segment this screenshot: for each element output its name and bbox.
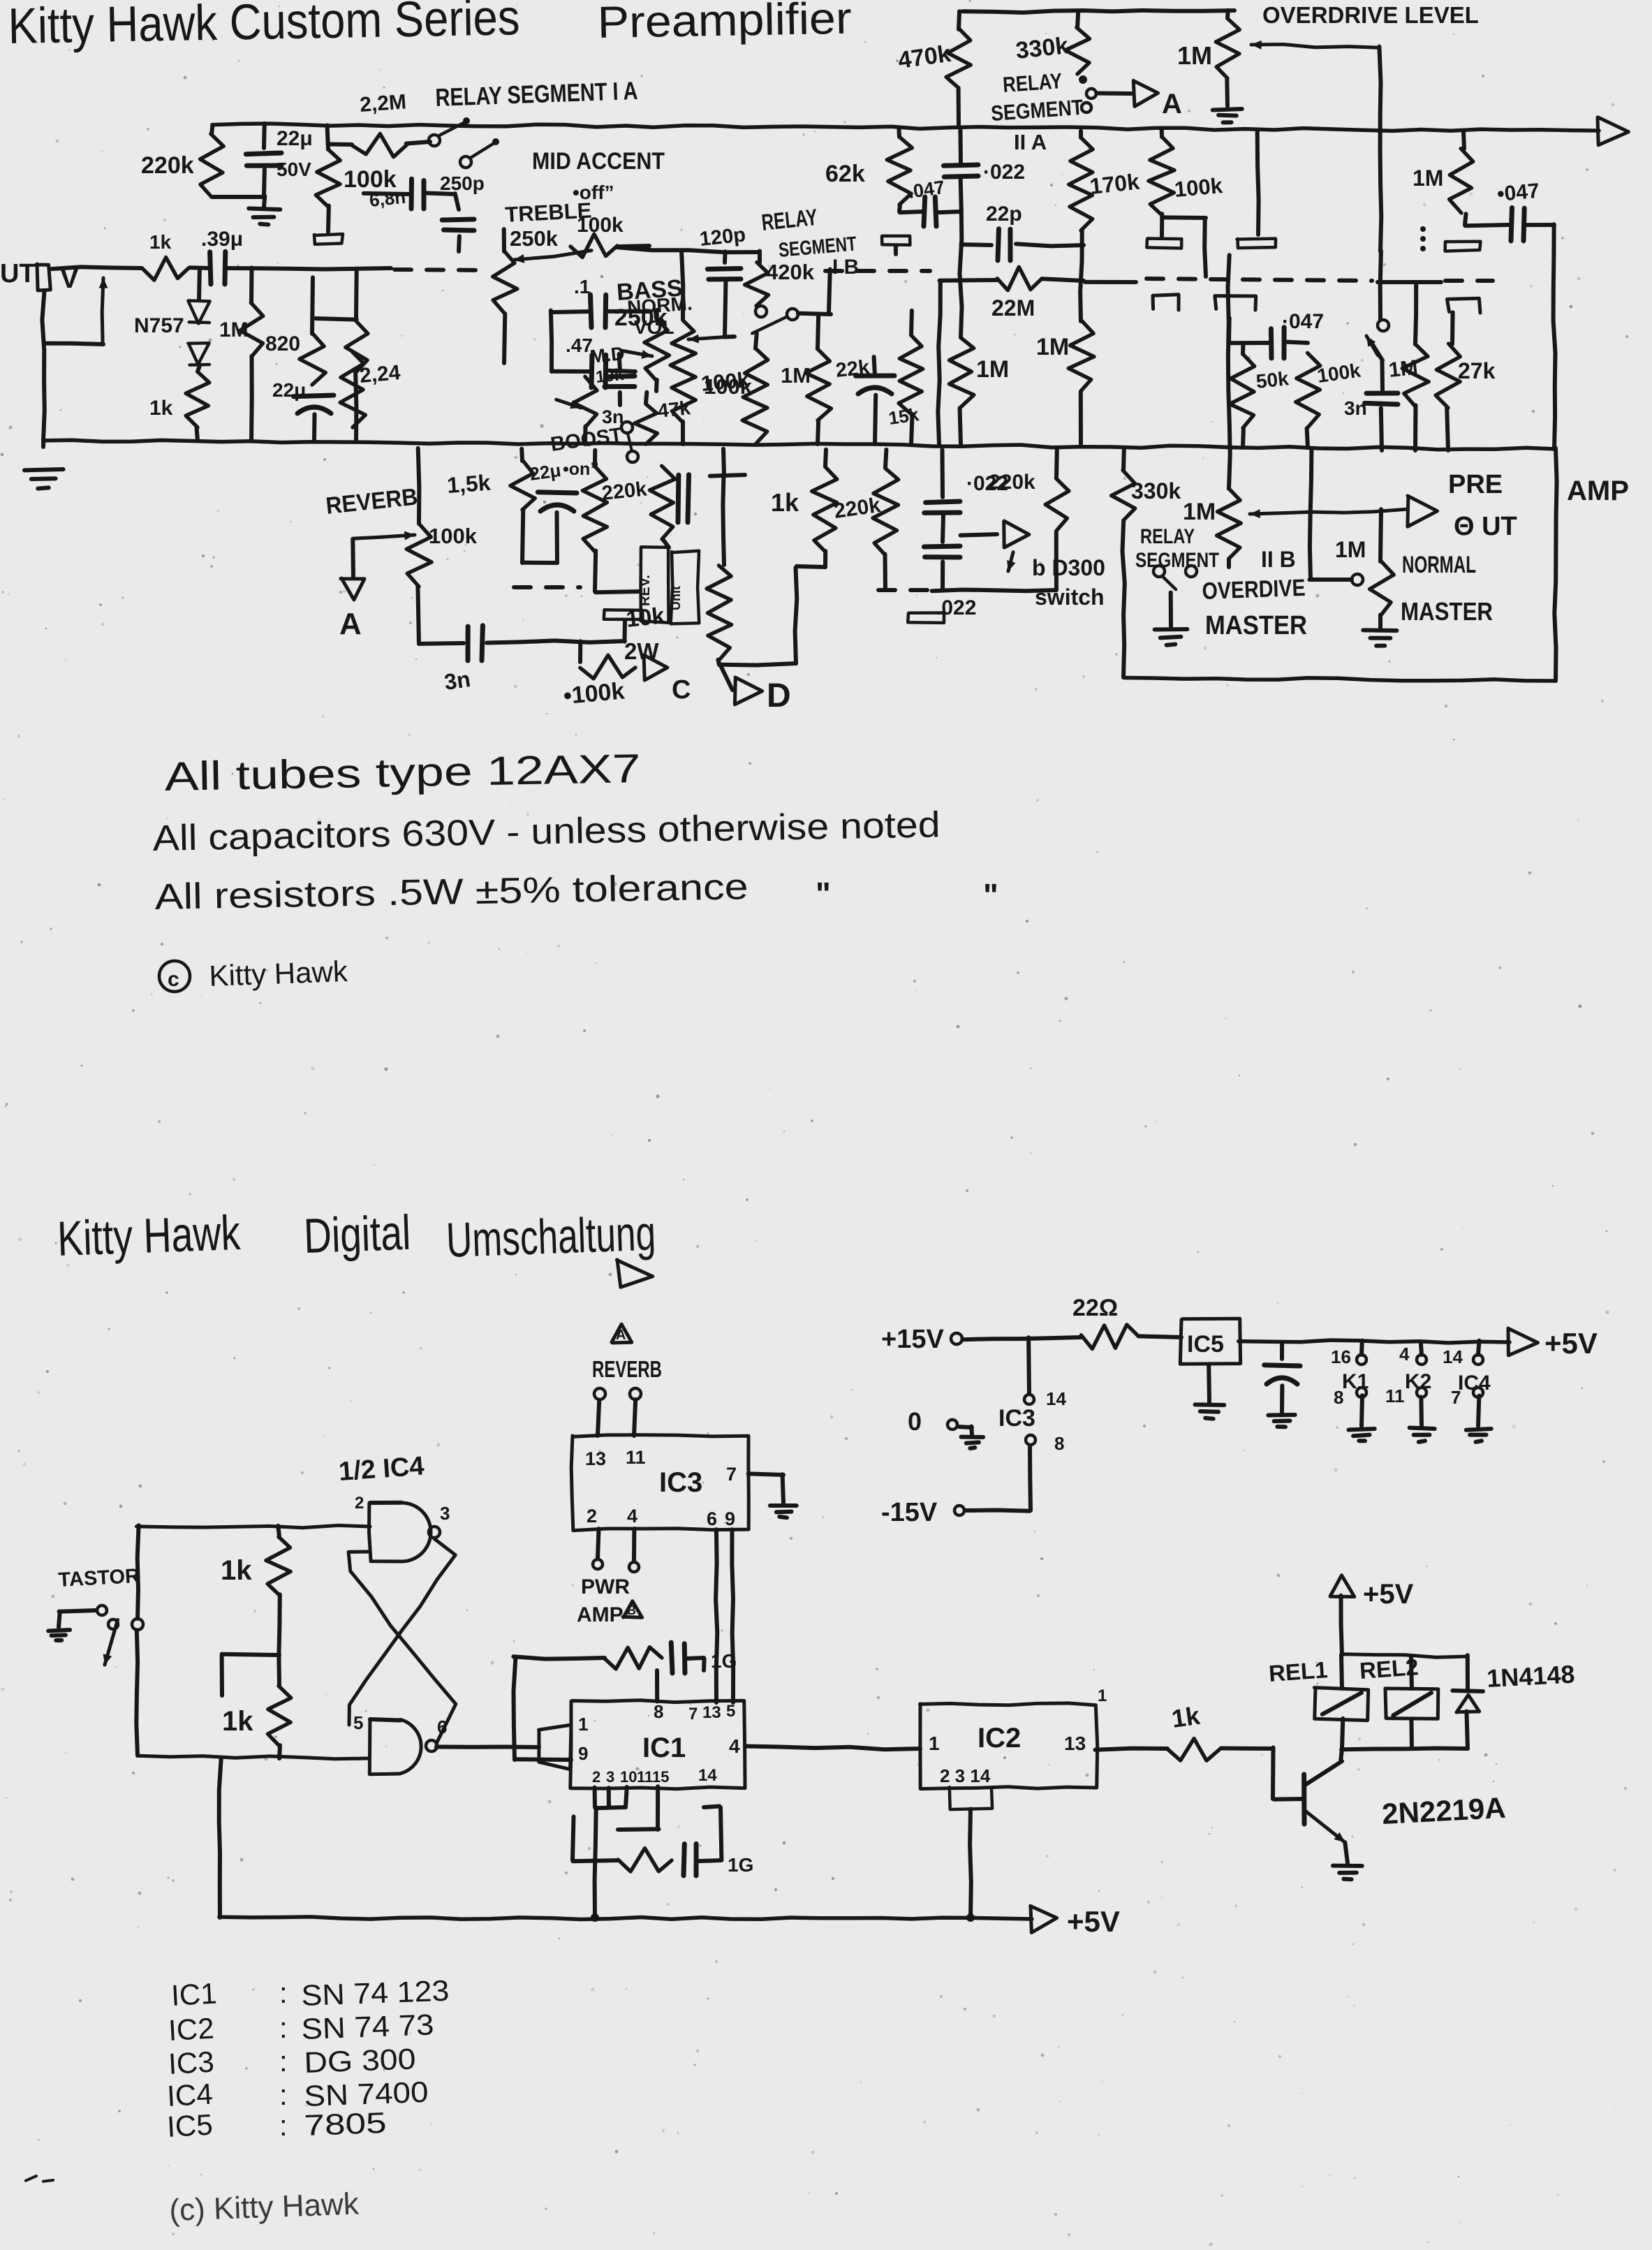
svg-text:100k: 100k — [704, 374, 753, 399]
svg-text:Θ UT: Θ UT — [1454, 512, 1517, 541]
svg-text:REV.: REV. — [637, 575, 653, 606]
svg-text:OVERDRIVE LEVEL: OVERDRIVE LEVEL — [1262, 2, 1479, 28]
svg-text:PWR: PWR — [581, 1575, 630, 1598]
svg-text:330k: 330k — [1131, 478, 1181, 503]
svg-text::: : — [279, 2078, 288, 2111]
svg-text:9: 9 — [578, 1743, 588, 1764]
svg-text:RELAY: RELAY — [1002, 68, 1063, 97]
svg-text:1,5k: 1,5k — [446, 470, 492, 498]
svg-text:SN 74 123: SN 74 123 — [301, 1974, 450, 2012]
svg-text:IC4: IC4 — [1458, 1372, 1491, 1395]
svg-text:1k: 1k — [1170, 1701, 1202, 1733]
svg-text:VOL: VOL — [634, 316, 674, 338]
svg-text:1G: 1G — [711, 1650, 737, 1672]
svg-text:II A: II A — [1014, 130, 1047, 154]
svg-text:1M: 1M — [1335, 537, 1366, 562]
svg-text:IC3: IC3 — [168, 2045, 215, 2080]
svg-text:2: 2 — [587, 1506, 597, 1527]
svg-text:100k: 100k — [577, 214, 624, 237]
svg-text:+5V: +5V — [1363, 1579, 1414, 1610]
svg-text:27k: 27k — [1458, 358, 1496, 383]
svg-text:K1: K1 — [1342, 1370, 1369, 1393]
svg-text:22p: 22p — [986, 203, 1022, 226]
svg-text:13: 13 — [585, 1448, 606, 1469]
svg-text:2 3 14: 2 3 14 — [940, 1765, 991, 1786]
svg-text:14: 14 — [1443, 1346, 1463, 1367]
svg-text:16: 16 — [1331, 1346, 1351, 1367]
svg-text:D: D — [767, 677, 791, 714]
svg-text:.47: .47 — [566, 334, 593, 356]
svg-text:1M: 1M — [1177, 41, 1212, 70]
svg-text:I B: I B — [832, 256, 859, 279]
svg-text:1G: 1G — [728, 1854, 753, 1876]
svg-text:1M: 1M — [1413, 166, 1443, 191]
svg-text:22Ω: 22Ω — [1072, 1295, 1118, 1321]
svg-text:14: 14 — [698, 1766, 717, 1785]
svg-text:1: 1 — [578, 1714, 588, 1735]
svg-text:2,2M: 2,2M — [359, 90, 407, 117]
svg-text:250p: 250p — [440, 172, 485, 194]
svg-text:2: 2 — [355, 1494, 364, 1513]
svg-text:330k: 330k — [1015, 32, 1070, 64]
svg-text:7: 7 — [688, 1705, 698, 1723]
svg-text:170k: 170k — [1089, 169, 1141, 199]
svg-text:50k: 50k — [1255, 367, 1290, 392]
svg-text::: : — [279, 1976, 288, 2009]
svg-text:8: 8 — [1334, 1387, 1343, 1408]
svg-text:100k: 100k — [429, 524, 478, 548]
svg-text:1M: 1M — [219, 318, 249, 341]
svg-text:820: 820 — [265, 332, 300, 355]
svg-text:11: 11 — [626, 1447, 646, 1468]
svg-text:": " — [983, 877, 998, 913]
svg-text:1M: 1M — [1183, 499, 1216, 525]
svg-text:·047: ·047 — [1282, 310, 1324, 333]
svg-text:-15V: -15V — [881, 1498, 938, 1527]
svg-text:SEGMENT: SEGMENT — [1135, 549, 1219, 572]
svg-text:Kitty Hawk: Kitty Hawk — [209, 955, 349, 992]
svg-text:MASTER: MASTER — [1401, 597, 1493, 626]
svg-text:4: 4 — [729, 1735, 740, 1757]
svg-text:IC3: IC3 — [998, 1405, 1035, 1432]
svg-text::: : — [279, 2011, 288, 2044]
svg-text:PRE: PRE — [1448, 470, 1503, 499]
svg-text:AMP: AMP — [577, 1603, 624, 1626]
svg-text:3: 3 — [440, 1503, 450, 1524]
svg-text:220k: 220k — [141, 152, 194, 179]
svg-text:C: C — [672, 675, 691, 705]
svg-text:IC1: IC1 — [642, 1733, 686, 1763]
svg-text:8: 8 — [654, 1701, 663, 1722]
svg-text:A: A — [1162, 89, 1182, 119]
svg-text:9: 9 — [725, 1508, 735, 1529]
svg-text:1k: 1k — [222, 1706, 253, 1737]
svg-text:+5V: +5V — [1067, 1905, 1120, 1938]
svg-text:250k: 250k — [510, 226, 559, 251]
svg-text:1k: 1k — [771, 488, 799, 517]
svg-text:0: 0 — [908, 1407, 922, 1436]
svg-text:5: 5 — [726, 1702, 735, 1721]
svg-text:2N2219A: 2N2219A — [1381, 1791, 1507, 1830]
svg-text:7: 7 — [1451, 1387, 1461, 1408]
svg-text::: : — [279, 2109, 288, 2142]
svg-text:1/2 IC4: 1/2 IC4 — [338, 1452, 425, 1487]
svg-text:6,8n: 6,8n — [368, 186, 406, 211]
svg-text:IC2: IC2 — [978, 1723, 1021, 1753]
svg-text::: : — [279, 2045, 288, 2078]
svg-text:1M: 1M — [976, 356, 1009, 383]
svg-text:+5V: +5V — [1544, 1327, 1598, 1360]
svg-text:10: 10 — [620, 1768, 637, 1786]
svg-text:B: B — [627, 1603, 636, 1617]
svg-text:2,24: 2,24 — [359, 361, 401, 388]
svg-text:Kitty Hawk Custom Series: Kitty Hawk Custom Series — [8, 0, 520, 54]
svg-text:62k: 62k — [825, 161, 865, 187]
svg-text:14: 14 — [1046, 1388, 1066, 1409]
svg-text:OVERDIVE: OVERDIVE — [1202, 575, 1306, 605]
svg-text:1N4148: 1N4148 — [1486, 1659, 1575, 1693]
svg-text:4: 4 — [1399, 1344, 1410, 1365]
svg-text:8: 8 — [1054, 1433, 1064, 1454]
svg-text:220k: 220k — [600, 478, 648, 505]
svg-text:22M: 22M — [991, 295, 1035, 321]
svg-text:420k: 420k — [766, 260, 815, 284]
svg-text:UT: UT — [0, 259, 36, 288]
svg-text:1k: 1k — [221, 1555, 252, 1586]
svg-text:7: 7 — [726, 1464, 737, 1485]
svg-text:(с) Kitty Hawk: (с) Kitty Hawk — [169, 2187, 360, 2228]
svg-text:11: 11 — [1385, 1385, 1405, 1406]
svg-text:A: A — [339, 607, 362, 641]
svg-text:MASTER: MASTER — [1205, 611, 1307, 640]
svg-text:22μ: 22μ — [276, 127, 313, 150]
svg-text:13: 13 — [702, 1703, 721, 1722]
svg-text:switch: switch — [1035, 584, 1105, 610]
svg-text:3n: 3n — [443, 666, 472, 695]
svg-text:Preamplifier: Preamplifier — [597, 0, 852, 47]
svg-text:22μ: 22μ — [529, 459, 563, 485]
svg-text:": " — [816, 876, 831, 912]
svg-text:b D300: b D300 — [1032, 555, 1105, 580]
svg-text:II B: II B — [1261, 547, 1296, 572]
svg-text:TASTOR: TASTOR — [58, 1565, 140, 1591]
svg-text:100k: 100k — [1174, 173, 1225, 202]
svg-text:MID ACCENT: MID ACCENT — [532, 148, 665, 175]
svg-text:IC5: IC5 — [166, 2108, 214, 2143]
svg-text:.022: .022 — [936, 596, 976, 619]
svg-text:RELAY: RELAY — [1140, 525, 1195, 548]
svg-text:1k: 1k — [149, 397, 173, 420]
svg-text:•047: •047 — [1496, 179, 1540, 206]
svg-text:IC5: IC5 — [1187, 1331, 1224, 1358]
svg-text:10k: 10k — [625, 602, 666, 632]
svg-text:SN 74 73: SN 74 73 — [301, 2008, 435, 2045]
svg-text:11: 11 — [637, 1768, 653, 1786]
svg-text:3n: 3n — [1344, 397, 1367, 419]
svg-text:3: 3 — [606, 1768, 614, 1786]
svg-text:IC4: IC4 — [166, 2078, 214, 2112]
svg-text:7805: 7805 — [304, 2106, 388, 2142]
svg-text:Kitty Hawk: Kitty Hawk — [57, 1205, 242, 1266]
svg-text:1M: 1M — [1036, 334, 1069, 360]
svg-text:50V: 50V — [276, 159, 311, 180]
svg-text:3n: 3n — [602, 406, 624, 427]
svg-text:.1: .1 — [574, 276, 590, 297]
svg-text:REVERB: REVERB — [592, 1356, 662, 1382]
svg-text:IC2: IC2 — [168, 2012, 215, 2047]
svg-text:+15V: +15V — [881, 1325, 944, 1354]
svg-text:13: 13 — [1064, 1733, 1086, 1754]
svg-text:.39μ: .39μ — [201, 228, 243, 251]
svg-text:AMP: AMP — [1567, 476, 1629, 506]
svg-text:DG 300: DG 300 — [304, 2042, 417, 2079]
svg-text:1M: 1M — [781, 363, 811, 388]
svg-text:1k: 1k — [149, 231, 172, 253]
svg-text:1: 1 — [929, 1733, 940, 1754]
svg-text:6: 6 — [707, 1508, 717, 1529]
svg-text:220k: 220k — [989, 471, 1035, 494]
svg-text:Unit: Unit — [669, 586, 683, 610]
svg-text:1: 1 — [1098, 1686, 1107, 1705]
svg-text:Digital: Digital — [303, 1205, 412, 1263]
svg-text:1M: 1M — [1387, 356, 1419, 382]
svg-text:4: 4 — [627, 1506, 637, 1527]
svg-text:NORMAL: NORMAL — [1402, 552, 1476, 578]
svg-text:IC3: IC3 — [659, 1467, 702, 1498]
svg-text:K2: K2 — [1405, 1370, 1431, 1393]
svg-text:N757: N757 — [134, 314, 184, 337]
svg-text:All tubes type 12AX7: All tubes type 12AX7 — [164, 746, 641, 800]
svg-text:2: 2 — [592, 1768, 600, 1786]
svg-text:c: c — [168, 968, 179, 991]
svg-text:A: A — [616, 1328, 626, 1343]
svg-text:15: 15 — [652, 1768, 669, 1786]
svg-text:REL1: REL1 — [1268, 1656, 1329, 1686]
svg-text:5: 5 — [353, 1712, 363, 1733]
svg-text:·022: ·022 — [983, 161, 1025, 184]
svg-text:IC1: IC1 — [170, 1977, 218, 2012]
svg-text:•100k: •100k — [562, 677, 626, 709]
svg-text:Umschaltung: Umschaltung — [445, 1206, 657, 1267]
svg-text:15k: 15k — [887, 404, 921, 429]
